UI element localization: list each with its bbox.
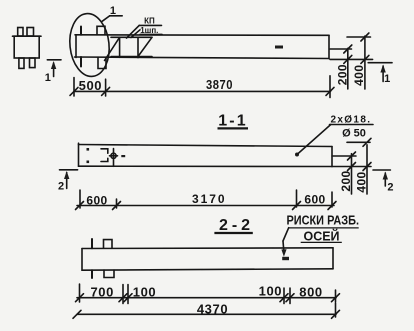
svg-text:2: 2: [58, 181, 64, 193]
svg-text:700: 700: [90, 285, 114, 300]
svg-text:100: 100: [133, 285, 157, 300]
right dims plan 200/400: [330, 33, 373, 89]
svg-text:2: 2: [387, 182, 393, 194]
beam outline plan view: [75, 35, 330, 59]
svg-text:200: 200: [339, 170, 353, 191]
section arrow 1 left: [47, 60, 61, 77]
svg-text:2-2: 2-2: [219, 217, 250, 234]
svg-text:100: 100: [259, 284, 283, 299]
svg-text:1-1: 1-1: [218, 112, 245, 129]
svg-text:600: 600: [86, 194, 107, 208]
detail ellipse: [67, 12, 112, 79]
detail label 1 leader: [102, 16, 122, 21]
svg-text:1: 1: [45, 72, 51, 84]
svg-text:600: 600: [304, 193, 325, 207]
section arrow 1 right: [368, 63, 392, 82]
svg-text:1шп.: 1шп.: [140, 26, 158, 35]
right dims 1-1 200/400: [332, 138, 371, 194]
svg-text:ОСЕЙ: ОСЕЙ: [304, 229, 340, 244]
dim line 4370: [73, 303, 340, 318]
section arrow 2 left: [60, 170, 78, 189]
svg-text:1: 1: [384, 73, 390, 85]
beam outline 1-1: [79, 143, 333, 166]
leader риски: [281, 228, 288, 257]
beam outline 2-2: [82, 248, 333, 270]
svg-text:400: 400: [352, 65, 366, 86]
svg-text:4370: 4370: [197, 302, 228, 317]
svg-text:КП: КП: [144, 17, 155, 26]
label КП leader: [127, 25, 162, 38]
svg-text:200: 200: [336, 64, 350, 85]
svg-text:Ø 50: Ø 50: [342, 128, 366, 140]
leader 2xd18: [295, 125, 373, 157]
column cross-section top-left: [13, 28, 42, 69]
mark on beam plan: [275, 46, 283, 49]
mark риски: [282, 257, 289, 260]
interior marks 1-1 left: [87, 148, 126, 166]
svg-text:3870: 3870: [206, 77, 233, 92]
dim line 2-2 700/100/100/800: [76, 284, 340, 304]
svg-text:РИСКИ РАЗБ.: РИСКИ РАЗБ.: [287, 213, 360, 228]
dim line 1-1 600/3170/600: [76, 190, 337, 210]
svg-text:3170: 3170: [192, 192, 225, 206]
embedded bars left end plan: [81, 26, 106, 68]
svg-text:1: 1: [110, 5, 116, 17]
svg-text:800: 800: [299, 285, 323, 300]
svg-text:500: 500: [79, 78, 103, 93]
console (оголовок): [105, 37, 153, 60]
svg-text:400: 400: [354, 171, 368, 192]
label 1шп leader: [131, 30, 162, 38]
embedded bars 2-2: [92, 239, 114, 278]
section arrow 2 right: [373, 170, 390, 186]
svg-text:2хØ18.: 2хØ18.: [331, 114, 371, 125]
dim 500/3870 line: [70, 76, 334, 98]
